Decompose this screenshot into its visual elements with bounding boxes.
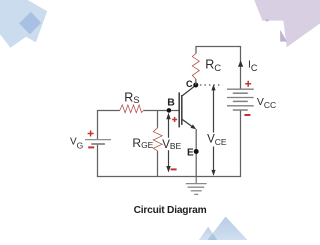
svg-text:B: B (167, 96, 175, 108)
wire top rail (195, 46, 241, 48)
minus VG (88, 146, 94, 148)
minus VCC (244, 114, 250, 116)
resistor RS (120, 105, 144, 113)
resistor RC (192, 54, 199, 80)
node E (194, 149, 199, 154)
wire RGE branch (157, 111, 159, 177)
svg-text:E: E (187, 147, 194, 158)
wire collector lead (195, 79, 197, 85)
wire left vertical rail (97, 111, 99, 177)
wire right vertical rail (240, 47, 242, 177)
battery VG (85, 140, 111, 144)
plus VBE (172, 117, 177, 122)
svg-text:Circuit Diagram: Circuit Diagram (134, 205, 207, 216)
minus VBE (171, 168, 177, 170)
svg-text:C: C (186, 79, 193, 89)
battery VCC (227, 89, 254, 110)
ground (186, 184, 207, 195)
wire emitter vertical (195, 129, 197, 177)
transistor Q1 (179, 85, 196, 129)
wire RC top lead (195, 47, 197, 54)
plus VG (88, 131, 94, 137)
label VBE (162, 138, 181, 151)
svg-text:VBE: VBE (162, 139, 181, 151)
annotation arrow VCE (211, 84, 215, 175)
wire ground stub (195, 177, 197, 184)
wire top-left rail (base wire) (97, 110, 180, 112)
annotation arrow VBE (166, 113, 170, 173)
dashed line from C (200, 84, 223, 86)
plus VCC (245, 81, 251, 87)
node B (167, 108, 172, 113)
annotation arrow IC (238, 60, 243, 67)
node C (193, 83, 198, 88)
wire bottom rail (97, 176, 241, 178)
resistor RGE (153, 128, 162, 151)
